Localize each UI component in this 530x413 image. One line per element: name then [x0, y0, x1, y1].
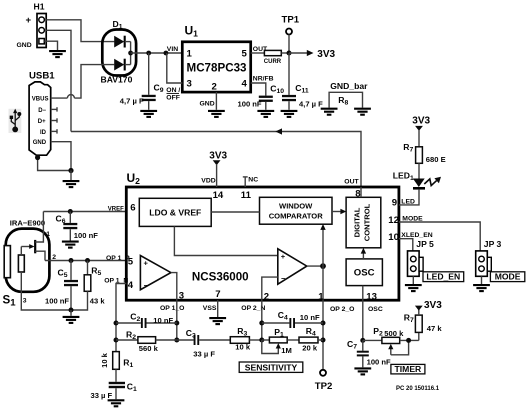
svg-text:OSC: OSC — [354, 268, 375, 279]
svg-text:JP 5: JP 5 — [416, 239, 434, 249]
svg-text:14: 14 — [213, 190, 224, 201]
LED1 symbol — [413, 179, 425, 189]
svg-text:+: + — [281, 252, 286, 261]
wire DIGITAL CONTROL to pin 8 — [360, 187, 362, 197]
svg-text:3V3: 3V3 — [424, 300, 442, 311]
op-amp OP2 — [278, 249, 307, 284]
ground C11 — [281, 111, 298, 117]
wire sensor pin1 up to VREF line — [42, 212, 44, 229]
svg-text:OSC: OSC — [368, 306, 383, 313]
wire OSC to DIGITAL CONTROL — [362, 251, 364, 259]
svg-text:WINDOW: WINDOW — [279, 202, 313, 211]
op-amp OP1 — [140, 256, 171, 291]
junction fb-C2 — [114, 321, 119, 326]
wire to 3V3 arrow — [289, 52, 307, 54]
resistor R CURR — [264, 50, 281, 55]
svg-text:D−: D− — [38, 108, 46, 114]
svg-text:VBUS: VBUS — [32, 97, 49, 103]
wire pin 3 down — [176, 300, 178, 340]
junction 3V3 node — [287, 51, 292, 56]
U2 pin 8 OUT labels — [344, 179, 361, 200]
U2 pin 1 — [318, 291, 354, 313]
svg-text:47 k: 47 k — [427, 324, 443, 333]
resistor R5 — [71, 261, 91, 311]
wire pin 2 down — [261, 300, 263, 340]
capacitor C11 — [282, 53, 296, 110]
diode D1 bottom diode — [114, 59, 130, 71]
U2 pin 7 VSS — [203, 289, 221, 312]
svg-text:ID: ID — [40, 130, 47, 136]
svg-text:560 k: 560 k — [139, 344, 159, 353]
arrowhead into WINDOW COMPARATOR — [320, 224, 325, 230]
connector USB1 outline — [29, 82, 51, 155]
svg-text:5: 5 — [128, 256, 134, 267]
svg-text:H1: H1 — [34, 2, 45, 12]
svg-text:MC78PC33: MC78PC33 — [187, 62, 247, 75]
svg-text:3V3: 3V3 — [209, 150, 227, 161]
ground S1 — [63, 317, 80, 323]
wire NR/FB to C10 — [251, 83, 266, 96]
svg-text:OFF: OFF — [166, 94, 180, 101]
svg-text:100 nF: 100 nF — [45, 297, 69, 306]
ground JP3 — [473, 285, 490, 291]
wire pin 10 XLED_EN to JP5 — [399, 239, 413, 251]
connector H1 body — [37, 14, 46, 48]
junction C5 tap — [69, 258, 74, 263]
svg-text:NCS36000: NCS36000 — [192, 271, 249, 284]
wire ground stem — [70, 171, 72, 181]
svg-text:SENSITIVITY: SENSITIVITY — [245, 362, 298, 372]
U2 pin 2 OP2_N — [241, 291, 269, 312]
svg-text:2: 2 — [264, 291, 269, 302]
wire U1 ON/OFF to VIN — [167, 53, 183, 83]
diode D1 top diode — [114, 36, 130, 48]
potentiometer P1 — [262, 337, 287, 353]
svg-text:3V3: 3V3 — [412, 115, 430, 126]
U2 pin 9 LED — [392, 198, 415, 209]
ground GND_bar left — [321, 109, 338, 115]
svg-text:−: − — [281, 274, 286, 283]
U2 pin 10 XLED_EN — [388, 232, 432, 243]
svg-text:XLED_EN: XLED_EN — [401, 232, 432, 239]
svg-text:USB1: USB1 — [29, 71, 55, 82]
svg-text:OP 2_O: OP 2_O — [330, 306, 354, 313]
SENSITIVITY boxed label — [239, 362, 303, 372]
svg-text:33 µ F: 33 µ F — [91, 391, 113, 400]
wire H1 pin2 down (OUT net) — [46, 30, 71, 131]
svg-text:8: 8 — [355, 188, 361, 199]
junction D1 cathode — [128, 51, 133, 56]
junction OSC node — [360, 338, 365, 343]
svg-text:CURR: CURR — [264, 59, 282, 65]
arrowhead into DIGITAL CONTROL — [340, 209, 346, 214]
wire U1 GND pin — [215, 92, 217, 110]
wire OP1 output to pin 3 — [171, 273, 177, 301]
wire ground stem S1 — [70, 310, 72, 316]
svg-text:12: 12 — [388, 215, 399, 226]
junction pin1-C4 — [321, 321, 326, 326]
ground under H1 — [49, 51, 66, 57]
svg-text:TIMER: TIMER — [395, 364, 423, 374]
svg-text:43 k: 43 k — [90, 297, 106, 306]
svg-text:680 E: 680 E — [426, 155, 446, 164]
capacitor C4 — [262, 318, 323, 328]
junction C6 tap — [68, 209, 73, 214]
USB1 pin ID stub — [40, 129, 57, 136]
svg-text:4: 4 — [241, 79, 247, 90]
test point TP1 — [286, 29, 292, 35]
wire VSS to ground — [217, 300, 219, 317]
wire pin 12 MODE to JP3 — [399, 222, 480, 251]
wire LDO to WINDOW COMPARATOR — [211, 211, 259, 213]
svg-text:4,7 µ F: 4,7 µ F — [299, 99, 323, 108]
junction sensor ground node — [69, 308, 74, 313]
svg-text:LDO & VREF: LDO & VREF — [149, 208, 201, 218]
wire VBUS to D1 with crossover hop — [51, 65, 115, 99]
diode D1 outline — [102, 30, 136, 76]
DIGITAL CONTROL text — [353, 203, 372, 241]
svg-text:10 k: 10 k — [100, 352, 109, 368]
svg-text:100 nF: 100 nF — [367, 358, 391, 367]
svg-text:GND: GND — [17, 42, 32, 49]
svg-text:MODE: MODE — [495, 272, 521, 282]
svg-text:3V3: 3V3 — [317, 49, 335, 60]
3V3 supply for VDD — [209, 150, 227, 187]
arrowhead on OUT net pointing left — [275, 128, 282, 134]
resistor R3 — [230, 337, 261, 344]
junction ON/OFF tap — [164, 51, 169, 56]
block LDO & VREF — [139, 198, 211, 226]
resistor R7 timer — [415, 310, 422, 341]
ground USB — [63, 181, 80, 187]
sensor internal resistor inner — [18, 255, 24, 272]
resistor R2 — [116, 337, 177, 344]
wire WINDOW COMPARATOR to DIGITAL CONTROL — [332, 211, 343, 213]
junction pin2-P1 — [259, 338, 264, 343]
regulator U1 body — [182, 42, 250, 92]
svg-text:10 nF: 10 nF — [153, 316, 173, 325]
svg-text:500 k: 500 k — [384, 329, 404, 338]
svg-text:NC: NC — [248, 177, 258, 184]
capacitor C7 — [357, 340, 369, 367]
sensor S1 outline — [6, 229, 50, 292]
ground VSS — [209, 318, 226, 324]
arrowhead 3V3 supply — [307, 50, 314, 56]
wire USB shell to ground node — [38, 157, 71, 171]
svg-text:−: − — [144, 281, 149, 290]
svg-text:VREF: VREF — [108, 206, 124, 212]
junction OP2 output — [320, 263, 326, 269]
svg-text:+: + — [26, 15, 32, 26]
svg-text:10 nF: 10 nF — [300, 313, 320, 322]
wire D1 common cathode — [130, 42, 132, 65]
U2 pin 13 OSC — [366, 291, 383, 313]
LED_EN boxed label — [423, 272, 464, 282]
ground C7 — [354, 368, 371, 374]
svg-text:TP1: TP1 — [282, 15, 300, 26]
svg-text:100 nF: 100 nF — [74, 231, 98, 240]
junction pin3-C2 — [174, 321, 179, 326]
resistor R1 — [113, 352, 120, 382]
sensor internal resistor left — [4, 246, 10, 278]
jumper JP3 — [476, 251, 492, 276]
svg-text:COMPARATOR: COMPARATOR — [269, 212, 324, 221]
junction C9 tap — [146, 51, 151, 56]
svg-text:5: 5 — [241, 49, 247, 60]
svg-text:GND: GND — [33, 140, 47, 146]
WINDOW COMPARATOR text — [269, 202, 324, 221]
wire pin 1 down to TP2 — [322, 300, 324, 370]
svg-text:+: + — [144, 259, 149, 268]
U2 pin 14 VDD — [201, 178, 224, 201]
block DIGITAL CONTROL — [346, 197, 381, 248]
wire TP1 to 3V3 node — [288, 35, 290, 53]
capacitor C3 — [177, 335, 231, 345]
svg-text:1: 1 — [46, 231, 50, 238]
resistor R4 — [287, 337, 323, 343]
svg-text:4,7 µ F: 4,7 µ F — [120, 96, 144, 105]
svg-text:VDD: VDD — [201, 178, 215, 185]
block OSC — [346, 259, 382, 286]
U2 pin 12 MODE — [388, 215, 423, 226]
wire pin 13 down — [362, 300, 364, 340]
U1 pin ON/OFF label — [166, 87, 180, 102]
svg-text:BAV170: BAV170 — [101, 75, 133, 85]
resistor R7 (LED) — [416, 147, 423, 164]
svg-text:OP 1_P: OP 1_P — [106, 255, 130, 262]
U2 pin 3 — [160, 291, 184, 312]
junction pin3-R2 — [174, 338, 179, 343]
wire CURR to 3V3 node — [281, 52, 289, 54]
3V3 supply for R7 LED — [412, 115, 430, 147]
junction fb-R2 — [114, 338, 119, 343]
svg-text:10 k: 10 k — [235, 343, 251, 352]
wire R7 to LED1 — [418, 163, 420, 178]
svg-text:4: 4 — [128, 280, 134, 291]
wire OP2 output node — [307, 265, 323, 267]
junction pin2-C4 — [259, 321, 264, 326]
USB icon — [9, 109, 22, 133]
svg-text:IRA−E900: IRA−E900 — [10, 218, 45, 227]
wire OP2 output to WINDOW COMPARATOR — [322, 228, 324, 267]
U2 pin 5 OP1_P — [106, 255, 134, 267]
svg-text:1: 1 — [187, 49, 193, 60]
wire D1 output to U1 VIN — [131, 52, 183, 54]
wire LDO VREF to op-amp2 plus — [174, 226, 277, 255]
junction USB ground node — [68, 168, 73, 173]
ground C10 — [257, 111, 274, 117]
wire H1 pin3 to ground — [44, 41, 57, 50]
wire VREF line to U2 pin 6 — [43, 211, 126, 213]
resistor R8 bar bracket — [329, 92, 362, 107]
svg-text:3: 3 — [23, 298, 27, 305]
junction pin1-R4 — [321, 338, 326, 343]
svg-text:LED_EN: LED_EN — [426, 272, 460, 282]
wire JP5 to ground — [412, 276, 414, 284]
svg-text:D+: D+ — [38, 119, 46, 125]
svg-text:10: 10 — [388, 232, 399, 243]
svg-text:CONTROL: CONTROL — [363, 203, 372, 241]
svg-text:DIGITAL: DIGITAL — [353, 207, 362, 237]
svg-text:1M: 1M — [281, 346, 292, 355]
svg-text:33 µ F: 33 µ F — [193, 349, 215, 358]
ground U1 — [208, 111, 225, 117]
svg-text:OUT: OUT — [344, 179, 359, 186]
wire USB GND to ground node — [51, 142, 71, 171]
capacitor C5 — [64, 261, 78, 311]
wire JP3 to ground — [481, 276, 483, 284]
svg-text:TP2: TP2 — [315, 381, 333, 392]
svg-text:3: 3 — [179, 291, 184, 302]
wire U1 OUT to resistor CURR — [251, 52, 265, 54]
capacitor C2 — [116, 318, 177, 328]
sensor JFET — [21, 228, 45, 261]
block WINDOW COMPARATOR — [260, 197, 333, 224]
arrowhead into DIGITAL CONTROL from OSC — [361, 248, 366, 254]
U2 pin 4 OP1_N — [104, 277, 134, 291]
IC U2 body — [126, 187, 399, 300]
LED1 light arrow — [424, 177, 441, 186]
svg-text:7: 7 — [215, 289, 220, 300]
svg-text:2: 2 — [212, 82, 217, 93]
wire OP2 output to pin 1 — [322, 266, 324, 300]
capacitor C6 — [63, 212, 77, 241]
ground GND_bar right — [354, 109, 371, 115]
junction R5 tap — [85, 258, 90, 263]
svg-text:GND_bar: GND_bar — [330, 81, 368, 91]
junction P2 wiper — [406, 338, 411, 343]
3V3 supply for timer — [415, 300, 442, 311]
wire OSC to pin 13 — [362, 286, 364, 301]
svg-text:ON /: ON / — [166, 87, 180, 94]
svg-text:VIN: VIN — [167, 46, 178, 53]
svg-text:3: 3 — [187, 79, 192, 90]
capacitor C9 — [142, 53, 156, 110]
ground C9 — [140, 111, 157, 117]
wire H1 pin1 to D1 top anode — [46, 20, 114, 42]
test point TP2 — [320, 370, 326, 376]
ground C1 — [108, 400, 125, 406]
ground JP5 — [405, 285, 422, 291]
svg-text:9: 9 — [392, 198, 397, 209]
svg-text:13: 13 — [366, 291, 377, 302]
wire sensor pin3 to ground node — [21, 272, 71, 310]
svg-text:GND: GND — [200, 100, 215, 107]
U2 pin 11 NC — [241, 177, 258, 201]
wire pin 4 to feedback node — [116, 284, 126, 352]
svg-text:OP 1_O: OP 1_O — [160, 305, 184, 312]
wire OUT net long horizontal to U2 pin 8 — [71, 132, 361, 188]
ground C6 — [62, 242, 79, 248]
capacitor C10 — [259, 96, 273, 110]
svg-text:6: 6 — [130, 203, 135, 214]
USB1 pin D+ stub — [38, 118, 57, 125]
potentiometer P2 — [363, 337, 419, 355]
wire OP2 minus to pin 2 — [262, 277, 278, 300]
jumper JP5 — [408, 251, 424, 276]
svg-text:NR/FB: NR/FB — [253, 75, 274, 82]
wire LED1 to pin 9 — [399, 190, 419, 205]
capacitor C1 — [109, 382, 125, 399]
svg-text:20 k: 20 k — [302, 343, 318, 352]
svg-text:11: 11 — [241, 190, 252, 201]
TIMER boxed label — [391, 364, 425, 374]
svg-text:PC 20 150116.1: PC 20 150116.1 — [396, 386, 440, 392]
svg-text:VSS: VSS — [203, 305, 217, 312]
wire sensor pin2 to U2 pin 5 — [45, 260, 126, 262]
svg-text:100 nF: 100 nF — [238, 99, 262, 108]
svg-text:JP 3: JP 3 — [484, 239, 502, 249]
junction USB shell — [35, 155, 40, 160]
USB1 pin D- stub — [38, 107, 57, 114]
MODE boxed label — [490, 272, 524, 282]
